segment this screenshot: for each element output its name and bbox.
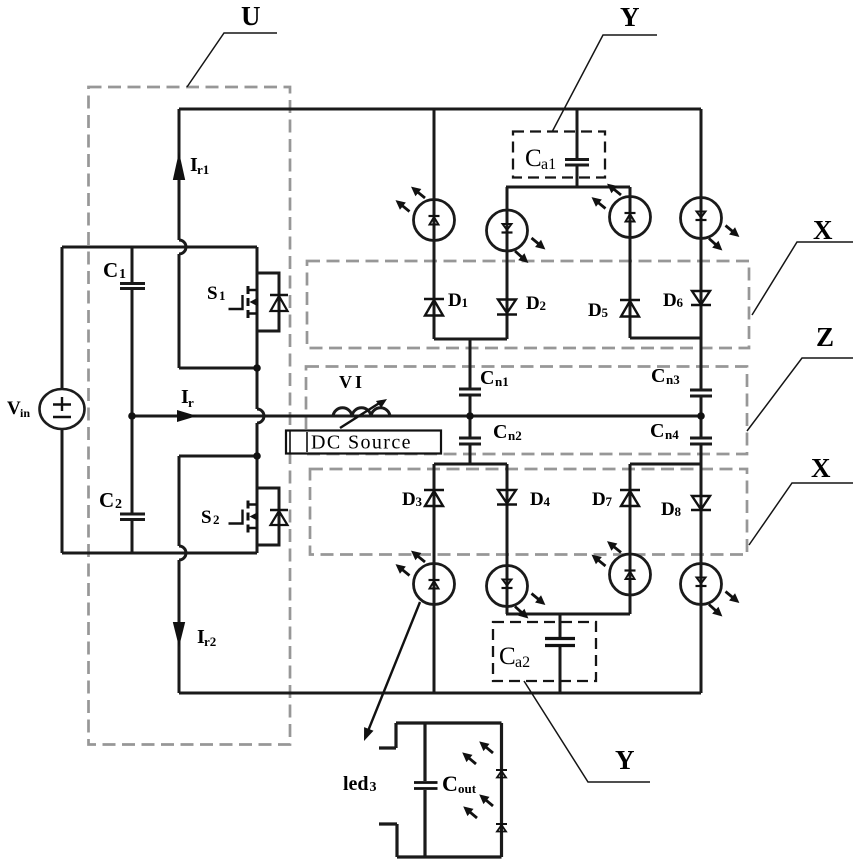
- svg-text:2: 2: [540, 298, 547, 313]
- LED6: [487, 565, 549, 622]
- box X bottom dashed: [310, 469, 747, 555]
- box Z dashed: [306, 367, 747, 455]
- wire left vertical Ir2 with hop: [179, 456, 186, 693]
- svg-text:n3: n3: [666, 372, 680, 387]
- svg-text:8: 8: [675, 504, 682, 519]
- svg-text:C: C: [525, 145, 542, 172]
- wire string D7: [629, 464, 632, 614]
- capacitor Cn2: [459, 416, 481, 464]
- capacitor Cout: [423, 723, 426, 857]
- box X top dashed: [307, 261, 749, 348]
- capacitor Ca2: [559, 614, 562, 693]
- svg-text:3: 3: [416, 494, 423, 509]
- arrow Ir1: [173, 152, 185, 180]
- svg-text:6: 6: [677, 295, 684, 310]
- pointer Y top: [552, 35, 657, 132]
- svg-text:S: S: [207, 283, 218, 304]
- capacitor C2: [120, 514, 145, 520]
- svg-text:VI: VI: [339, 372, 365, 392]
- svg-text:n2: n2: [508, 428, 522, 443]
- svg-text:V: V: [7, 398, 21, 419]
- box Ca1 dashed: [513, 132, 605, 178]
- svg-text:1: 1: [219, 288, 226, 303]
- svg-text:C: C: [99, 488, 114, 512]
- svg-text:2: 2: [115, 497, 122, 512]
- LED3: [589, 180, 651, 238]
- wire bracket top-left: [434, 338, 507, 341]
- svg-text:led: led: [343, 773, 369, 795]
- capacitor Ca1: [565, 109, 589, 187]
- wire upper left rail y247: [62, 246, 257, 249]
- transistor S1: [229, 286, 259, 318]
- svg-text:7: 7: [606, 494, 613, 509]
- svg-text:DC Source: DC Source: [311, 432, 412, 454]
- wire string D4: [506, 464, 509, 614]
- wire midpoint vertical with hop: [257, 368, 264, 456]
- svg-text:r: r: [188, 395, 194, 410]
- diode D3: [424, 490, 444, 506]
- svg-text:4: 4: [544, 494, 551, 509]
- wire string3 top: [629, 187, 632, 338]
- wire string D3: [433, 464, 436, 693]
- svg-text:D: D: [588, 300, 602, 321]
- svg-text:1: 1: [462, 295, 469, 310]
- wire string1 top: [433, 109, 436, 339]
- wire Vin vertical: [61, 247, 64, 553]
- LED8: [681, 563, 743, 620]
- wire string2 top: [506, 187, 509, 339]
- svg-text:1: 1: [119, 267, 126, 282]
- capacitor Cn4: [690, 438, 712, 444]
- diode D1: [424, 299, 444, 316]
- wire S2 right vertical: [256, 456, 259, 553]
- pointer X bottom: [749, 483, 853, 545]
- svg-text:Z: Z: [816, 322, 834, 352]
- svg-text:5: 5: [602, 305, 609, 320]
- node junction dots: [128, 412, 136, 420]
- capacitor Cn1: [459, 339, 481, 416]
- pointer Y bottom: [524, 681, 650, 782]
- svg-text:n4: n4: [665, 427, 679, 442]
- inductor VI: [333, 408, 390, 416]
- source Vin circle: [40, 389, 85, 429]
- svg-text:C: C: [442, 771, 458, 796]
- diode body S2: [257, 488, 288, 545]
- svg-text:Y: Y: [615, 745, 635, 775]
- wire top rail: [179, 108, 701, 111]
- wire left vertical Ir1 with hop: [179, 109, 186, 368]
- pointer X top: [752, 242, 853, 315]
- diode D5: [620, 300, 640, 317]
- box U dashed: [89, 87, 291, 745]
- led3 mini diode top: [496, 770, 507, 778]
- svg-text:X: X: [811, 453, 831, 483]
- svg-text:C: C: [651, 365, 665, 387]
- svg-text:2: 2: [213, 512, 220, 527]
- transistor S2: [229, 501, 259, 533]
- wire S1 bottom: [179, 367, 257, 370]
- LED2: [487, 210, 549, 267]
- svg-text:X: X: [813, 215, 833, 245]
- diode D8: [691, 496, 711, 510]
- LED1: [393, 183, 455, 241]
- diode body S1: [257, 273, 288, 331]
- wire right vertical string4: [700, 109, 703, 693]
- box Ca2 dashed: [493, 622, 596, 681]
- svg-text:D: D: [592, 489, 606, 510]
- wire C1 C2 vertical: [131, 247, 134, 553]
- svg-text:U: U: [241, 1, 261, 31]
- svg-text:D: D: [663, 290, 677, 311]
- svg-text:D: D: [402, 489, 416, 510]
- diode D4: [497, 490, 517, 505]
- diode D2: [497, 300, 517, 315]
- arrow Ir2: [173, 622, 185, 647]
- svg-text:a1: a1: [541, 156, 556, 173]
- svg-text:a2: a2: [515, 654, 530, 671]
- svg-text:r1: r1: [197, 162, 209, 177]
- svg-text:n1: n1: [495, 374, 509, 389]
- wire bracket bottom-right: [630, 463, 701, 466]
- led3 mini diode bottom: [496, 824, 507, 832]
- svg-text:C: C: [480, 367, 494, 389]
- diode D6: [691, 291, 711, 305]
- arrow VI: [340, 399, 387, 428]
- wire sub-rail Y bottom: [506, 613, 630, 616]
- wire S2 top: [179, 455, 257, 458]
- arrow Ir head: [177, 410, 197, 422]
- capacitor C1: [120, 284, 145, 289]
- svg-text:C: C: [103, 258, 118, 282]
- led3 arrows: [459, 738, 496, 822]
- led3 block wires: [379, 723, 502, 857]
- svg-text:C: C: [499, 643, 516, 670]
- wire lower left rail y553: [62, 552, 257, 555]
- svg-text:Y: Y: [620, 2, 640, 32]
- wire sub-rail Y top: [506, 186, 630, 189]
- LED4: [681, 197, 743, 254]
- svg-text:C: C: [493, 421, 507, 443]
- diode D7: [620, 490, 640, 506]
- svg-text:D: D: [661, 499, 675, 520]
- svg-text:r2: r2: [204, 634, 216, 649]
- LED7: [589, 538, 651, 596]
- svg-text:S: S: [201, 507, 212, 528]
- LED5: [393, 547, 455, 605]
- wire bracket top-right: [630, 337, 701, 340]
- svg-text:in: in: [20, 406, 30, 420]
- svg-text:D: D: [530, 489, 544, 510]
- wire S1 right vertical: [256, 247, 259, 368]
- pointer U: [187, 33, 277, 87]
- svg-text:C: C: [650, 420, 664, 442]
- arrow to led3 block: [364, 602, 420, 741]
- wire bracket bottom-left: [434, 463, 507, 466]
- svg-text:3: 3: [370, 780, 377, 795]
- wire bottom rail: [179, 692, 701, 695]
- svg-text:D: D: [526, 293, 540, 314]
- capacitor Cn3: [690, 390, 712, 396]
- svg-text:D: D: [448, 290, 462, 311]
- svg-text:out: out: [458, 781, 477, 796]
- box DC Source: [286, 431, 441, 454]
- wire center rail Ir: [132, 415, 701, 418]
- pointer Z: [747, 358, 853, 431]
